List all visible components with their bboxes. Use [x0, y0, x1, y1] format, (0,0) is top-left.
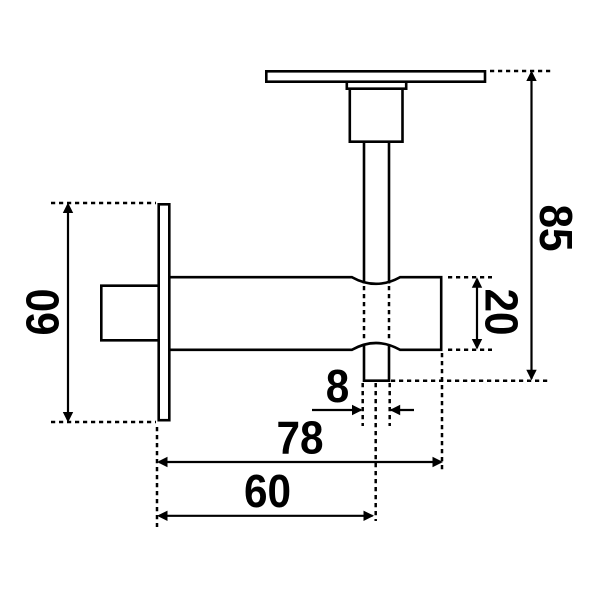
svg-text:78: 78	[276, 413, 323, 464]
svg-text:8: 8	[326, 362, 350, 413]
svg-text:85: 85	[530, 204, 581, 251]
svg-text:60: 60	[18, 288, 69, 335]
svg-text:20: 20	[475, 288, 526, 335]
svg-text:60: 60	[244, 467, 291, 518]
